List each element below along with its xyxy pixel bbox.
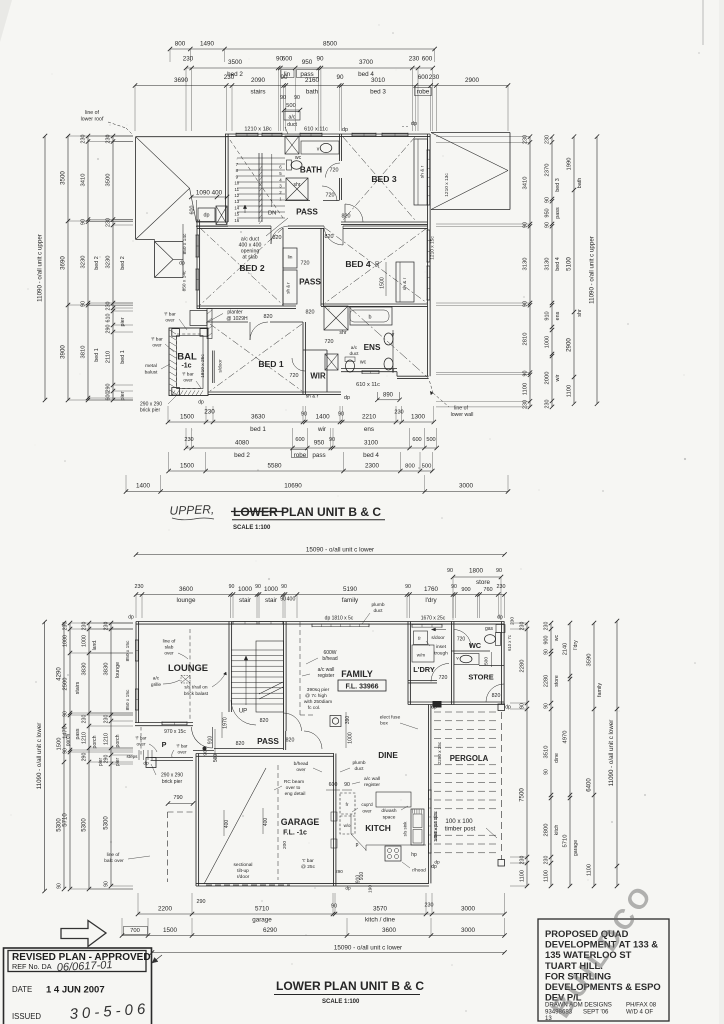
- svg-text:over to: over to: [286, 785, 301, 791]
- svg-text:balc over: balc over: [104, 858, 124, 864]
- svg-text:500: 500: [213, 754, 219, 763]
- svg-text:820: 820: [286, 738, 295, 744]
- svg-text:sh & r: sh & r: [286, 282, 291, 294]
- upper plan - right roof (hip over bed3): [431, 132, 510, 134]
- svg-text:3130: 3130: [523, 258, 529, 271]
- svg-text:3010: 3010: [371, 77, 386, 84]
- lower plan - top dim row 1 (15090 o/all): [136, 554, 505, 556]
- svg-text:5300: 5300: [82, 818, 88, 832]
- svg-text:15: 15: [234, 212, 239, 217]
- svg-text:90: 90: [405, 584, 411, 590]
- svg-text:230: 230: [544, 622, 550, 631]
- upper plan - left roof (hip): [136, 136, 228, 138]
- upper plan - small dp box and duct at west step: [198, 208, 215, 222]
- svg-text:90: 90: [229, 584, 235, 590]
- svg-text:steps: steps: [127, 754, 139, 759]
- svg-text:3000: 3000: [461, 906, 476, 913]
- svg-text:2900: 2900: [465, 77, 480, 84]
- svg-text:store: store: [554, 675, 560, 687]
- svg-text:line of: line of: [107, 852, 120, 858]
- svg-text:600: 600: [422, 56, 433, 63]
- svg-text:2160: 2160: [305, 77, 320, 84]
- svg-text:1000: 1000: [63, 635, 69, 647]
- svg-text:4080: 4080: [235, 440, 250, 447]
- upper plan - bottom dim row A (bed1/wir/ens): [168, 421, 434, 423]
- svg-text:over: over: [164, 651, 174, 657]
- svg-text:90: 90: [523, 222, 529, 228]
- upper plan - right dim col 4 (o/all): [596, 137, 598, 404]
- upper plan - south-east step walls at ens: [341, 368, 397, 370]
- svg-text:over: over: [296, 767, 306, 773]
- svg-text:1210: 1210: [104, 733, 110, 745]
- svg-text:box: box: [380, 721, 388, 727]
- svg-text:3690: 3690: [60, 256, 67, 270]
- svg-text:30-5-06: 30-5-06: [69, 1000, 150, 1023]
- svg-text:230: 230: [81, 135, 87, 144]
- svg-text:16: 16: [234, 218, 239, 223]
- lower plan - garage west wall: [195, 754, 197, 887]
- lower plan - family/ldry wall: [407, 622, 409, 705]
- svg-text:850 x 14c: 850 x 14c: [182, 270, 188, 291]
- svg-text:PERGOLA: PERGOLA: [450, 754, 489, 763]
- svg-text:600: 600: [106, 392, 112, 401]
- upper plan - bed3 robe: [414, 139, 428, 205]
- svg-text:90: 90: [281, 584, 287, 590]
- upper plan - bed2 west wall: [196, 220, 198, 310]
- lower plan - pass walls: [283, 731, 285, 750]
- svg-text:duct: duct: [349, 351, 359, 357]
- svg-text:6290: 6290: [263, 927, 278, 934]
- svg-text:230: 230: [520, 622, 526, 631]
- svg-text:ISSUED: ISSUED: [12, 1012, 41, 1021]
- svg-text:balust: balust: [145, 370, 158, 376]
- svg-text:over: over: [362, 809, 372, 815]
- lower plan - store/family south wall: [408, 701, 505, 703]
- svg-text:cup'd: cup'd: [361, 802, 373, 808]
- svg-text:2370: 2370: [545, 164, 551, 177]
- lower plan - wc vanity: [454, 654, 479, 665]
- svg-text:850 x 15c: 850 x 15c: [125, 640, 131, 661]
- svg-text:15090 - o/all unit c lower: 15090 - o/all unit c lower: [334, 945, 402, 952]
- svg-text:9: 9: [236, 174, 239, 179]
- svg-text:1210 x 13c: 1210 x 13c: [444, 173, 450, 197]
- svg-text:890: 890: [383, 393, 394, 399]
- lower plan - left dim col 2: [69, 623, 71, 889]
- svg-text:wir: wir: [317, 426, 326, 433]
- svg-text:PASS: PASS: [299, 278, 321, 287]
- svg-text:lounge: lounge: [115, 662, 121, 678]
- svg-text:5710: 5710: [255, 906, 270, 913]
- svg-text:line of: line of: [454, 406, 468, 412]
- svg-text:garage: garage: [573, 840, 579, 856]
- upper plan - left dim col 4: [112, 136, 114, 400]
- svg-text:910: 910: [208, 736, 214, 745]
- svg-text:l'dry: l'dry: [425, 597, 437, 604]
- svg-text:land.: land.: [92, 640, 98, 651]
- lower plan - ldry plumb duct (solid): [433, 701, 442, 708]
- svg-text:1 4 JUN 2007: 1 4 JUN 2007: [46, 985, 105, 996]
- svg-text:inset: inset: [436, 644, 447, 650]
- lower plan - north wall windows: [233, 621, 257, 623]
- svg-text:3900: 3900: [60, 345, 67, 359]
- lower plan - porch south wall: [151, 757, 193, 759]
- upper plan - balcony corner piers: [172, 329, 180, 337]
- svg-text:1100: 1100: [520, 870, 526, 882]
- svg-text:dp: dp: [411, 121, 417, 127]
- upper plan - balcony sliding door leaf: [212, 351, 214, 384]
- upper plan - west step wall at stair base: [196, 221, 228, 223]
- lower plan - porch pier + annotation: [146, 758, 156, 768]
- upper plan - north wall: [225, 133, 430, 135]
- svg-text:P: P: [162, 740, 167, 749]
- svg-text:720: 720: [301, 261, 310, 267]
- svg-text:2110: 2110: [106, 351, 112, 363]
- svg-text:shr: shr: [294, 182, 301, 188]
- svg-text:ens: ens: [555, 311, 561, 320]
- svg-text:r/door: r/door: [237, 874, 250, 880]
- lower plan - stair bottom door: [284, 713, 302, 731]
- svg-text:2280 x 25c: 2280 x 25c: [437, 741, 442, 764]
- svg-text:dine: dine: [554, 753, 560, 763]
- svg-text:2000: 2000: [545, 372, 551, 385]
- svg-text:eng detail: eng detail: [285, 791, 306, 797]
- svg-text:820: 820: [325, 234, 334, 240]
- svg-text:90: 90: [294, 95, 300, 101]
- svg-text:LOUNGE: LOUNGE: [168, 662, 208, 673]
- svg-text:stair: stair: [265, 597, 277, 604]
- svg-text:ENS: ENS: [364, 343, 381, 352]
- svg-text:UP: UP: [239, 709, 247, 715]
- upper plan - a/c duct shaft beside stairs: [285, 136, 299, 154]
- svg-text:230: 230: [135, 584, 144, 590]
- svg-text:290: 290: [106, 325, 112, 334]
- svg-text:14: 14: [234, 205, 239, 210]
- svg-text:over: over: [152, 343, 162, 349]
- svg-text:lower wall: lower wall: [451, 412, 474, 418]
- room BAL balcony: [169, 328, 208, 396]
- svg-text:pass: pass: [75, 728, 81, 739]
- svg-text:600: 600: [295, 437, 304, 443]
- svg-text:over: over: [183, 378, 193, 384]
- svg-text:1500: 1500: [380, 277, 386, 289]
- upper plan - ens wc + basins: [346, 360, 355, 372]
- svg-text:KITCH: KITCH: [365, 823, 391, 833]
- svg-text:1100: 1100: [567, 385, 573, 397]
- svg-text:fc col.: fc col.: [308, 705, 321, 711]
- svg-text:90: 90: [544, 649, 550, 655]
- svg-text:brick pier: brick pier: [140, 408, 161, 414]
- svg-text:register: register: [318, 673, 335, 679]
- upper plan - bed3 door through divider: [326, 163, 341, 178]
- svg-text:bed 3: bed 3: [555, 178, 561, 192]
- svg-text:b: b: [369, 315, 372, 321]
- svg-text:5: 5: [279, 171, 282, 176]
- lower plan - kitchen east window: [428, 790, 430, 853]
- svg-text:600: 600: [190, 206, 196, 215]
- svg-text:90: 90: [544, 769, 550, 775]
- svg-text:3630: 3630: [251, 414, 266, 421]
- svg-text:230: 230: [429, 74, 440, 81]
- upper plan - planter at balcony: [190, 311, 207, 326]
- upper plan - ens south window + 890 dim: [362, 370, 379, 372]
- lower plan - lounge west windows: [135, 640, 137, 661]
- svg-text:lounge: lounge: [177, 597, 196, 604]
- svg-text:90: 90: [545, 222, 551, 228]
- svg-text:11090 - o/all unit c lower: 11090 - o/all unit c lower: [36, 723, 43, 790]
- svg-text:sectional: sectional: [234, 862, 253, 868]
- svg-text:2300: 2300: [365, 463, 380, 470]
- svg-text:390sq pier: 390sq pier: [307, 687, 330, 693]
- lower plan - right dim col 3: [569, 623, 571, 886]
- upper plan - bed2 door: [271, 226, 289, 244]
- lower plan - garage door (dashed): [206, 884, 290, 886]
- svg-text:90: 90: [344, 782, 350, 788]
- svg-text:900: 900: [461, 587, 470, 593]
- svg-text:bed 2: bed 2: [120, 256, 126, 270]
- svg-text:3500: 3500: [60, 171, 67, 185]
- svg-text:230: 230: [183, 56, 194, 63]
- svg-text:BED 4: BED 4: [345, 259, 371, 269]
- svg-text:F.L. -1c: F.L. -1c: [283, 830, 307, 837]
- svg-text:400: 400: [224, 820, 230, 829]
- svg-text:230: 230: [63, 622, 69, 631]
- svg-text:500: 500: [286, 103, 296, 109]
- svg-text:dp: dp: [198, 400, 204, 406]
- svg-text:1300: 1300: [411, 414, 426, 421]
- svg-text:600: 600: [329, 782, 338, 788]
- lower plan - porch west dashed edge: [140, 727, 142, 757]
- upper plan - bed1/balcony south wall: [208, 391, 341, 393]
- upper plan - bath shower: [286, 178, 308, 200]
- svg-text:90: 90: [57, 883, 63, 889]
- svg-text:3500: 3500: [228, 59, 243, 66]
- svg-text:duct: duct: [287, 122, 297, 128]
- kitchen lower bench + stove: [366, 844, 426, 846]
- upper plan - small lower hip roof: [154, 242, 156, 278]
- svg-text:230: 230: [545, 400, 551, 409]
- svg-text:pass: pass: [312, 452, 325, 459]
- lower plan - stair/family wall: [283, 622, 285, 732]
- svg-text:230: 230: [497, 584, 506, 590]
- svg-text:820: 820: [492, 693, 501, 699]
- lower plan - wc/store divider + vanity nook: [452, 650, 491, 652]
- upper plan - pass/bed4 divider wall: [320, 228, 322, 306]
- upper plan - left dim col 3: [87, 136, 89, 400]
- svg-text:800: 800: [405, 464, 415, 470]
- svg-text:2810: 2810: [523, 333, 529, 346]
- svg-text:stairs: stairs: [75, 681, 81, 694]
- svg-text:90: 90: [81, 301, 87, 307]
- svg-text:bed 3: bed 3: [370, 89, 386, 96]
- svg-text:950: 950: [302, 59, 313, 66]
- svg-text:12: 12: [234, 193, 239, 198]
- svg-text:F.L. 33966: F.L. 33966: [345, 684, 378, 691]
- svg-text:DINE: DINE: [378, 751, 398, 760]
- svg-text:610 x 11c: 610 x 11c: [356, 382, 380, 388]
- upper plan - bed1 east wall: [302, 322, 304, 394]
- svg-text:720: 720: [326, 193, 335, 199]
- svg-text:230: 230: [104, 622, 110, 631]
- svg-text:BATH: BATH: [300, 166, 322, 175]
- upper plan - bottom dim row B (bed2/robe/pass/bed4): [186, 447, 437, 449]
- svg-text:2210: 2210: [362, 414, 377, 421]
- svg-text:robe: robe: [294, 452, 307, 459]
- svg-text:bed 1: bed 1: [120, 350, 126, 364]
- svg-text:820: 820: [264, 314, 273, 320]
- svg-text:6: 6: [279, 165, 282, 170]
- svg-text:s/door: s/door: [218, 359, 224, 373]
- upper plan - ens bath tub: [350, 307, 392, 325]
- lower plan - pergola posts: [498, 704, 505, 711]
- svg-text:1990: 1990: [567, 158, 573, 171]
- lower plan - line of balc over (dashed): [167, 812, 169, 882]
- svg-text:porch: porch: [92, 735, 98, 748]
- svg-text:230: 230: [425, 903, 434, 909]
- svg-text:500: 500: [422, 464, 432, 470]
- svg-text:'f' bar: 'f' bar: [177, 744, 188, 749]
- svg-text:1970: 1970: [223, 717, 229, 729]
- svg-text:720: 720: [290, 373, 299, 379]
- svg-text:1800: 1800: [469, 568, 484, 575]
- svg-text:8: 8: [236, 168, 239, 173]
- svg-text:kitch / dine: kitch / dine: [365, 917, 396, 924]
- svg-text:1000: 1000: [545, 336, 551, 348]
- svg-text:820: 820: [273, 235, 282, 241]
- svg-text:gas: gas: [485, 626, 494, 632]
- svg-text:1000: 1000: [348, 732, 354, 744]
- approved stamp outer box: [4, 948, 152, 1024]
- svg-text:90: 90: [523, 301, 529, 307]
- svg-text:shr: shr: [339, 330, 346, 336]
- svg-text:90: 90: [255, 584, 261, 590]
- upper plan - bed1 north wall: [208, 321, 248, 323]
- svg-text:PASS: PASS: [296, 208, 318, 217]
- svg-text:SCALE 1:100: SCALE 1:100: [322, 999, 360, 1005]
- svg-text:90: 90: [336, 74, 344, 81]
- svg-text:'f' bar: 'f' bar: [164, 312, 176, 318]
- svg-text:brick balast: brick balast: [184, 691, 209, 697]
- svg-text:wc: wc: [554, 634, 560, 641]
- upper plan - bed3 south wall: [341, 221, 428, 223]
- svg-text:line of: line of: [163, 639, 176, 645]
- svg-text:720: 720: [325, 339, 334, 345]
- svg-text:d/wash: d/wash: [381, 808, 397, 814]
- svg-text:90: 90: [81, 219, 87, 225]
- svg-text:plumb: plumb: [352, 760, 365, 766]
- svg-text:6400: 6400: [587, 778, 593, 792]
- svg-text:sh & r: sh & r: [402, 277, 408, 290]
- upper plan - left dim col 1 (o/all): [44, 136, 46, 400]
- svg-text:3810: 3810: [81, 346, 87, 359]
- svg-text:fr: fr: [418, 636, 421, 641]
- svg-text:400: 400: [263, 818, 269, 827]
- svg-text:3500: 3500: [106, 174, 112, 187]
- svg-text:space: space: [383, 816, 396, 821]
- svg-text:dp: dp: [431, 705, 437, 711]
- svg-text:bed 4: bed 4: [555, 257, 561, 271]
- svg-text:1490: 1490: [200, 41, 215, 48]
- svg-text:fr: fr: [346, 802, 349, 808]
- svg-text:1400: 1400: [136, 483, 151, 490]
- svg-text:'f' bar: 'f' bar: [151, 337, 163, 343]
- lower plan - left dim col 1: [63, 623, 65, 889]
- svg-text:5580: 5580: [267, 463, 282, 470]
- svg-text:l'dry: l'dry: [573, 640, 579, 650]
- svg-text:3590: 3590: [587, 654, 593, 667]
- svg-text:820: 820: [260, 718, 269, 724]
- svg-text:1100: 1100: [544, 870, 550, 882]
- svg-text:230: 230: [394, 410, 403, 416]
- svg-text:bed 2: bed 2: [234, 452, 250, 459]
- svg-text:230: 230: [545, 135, 551, 144]
- svg-text:pass: pass: [555, 207, 561, 219]
- svg-text:brick pier: brick pier: [162, 779, 183, 785]
- svg-text:230: 230: [204, 409, 215, 416]
- approved stamp inner box: [8, 951, 146, 972]
- svg-text:3230: 3230: [81, 256, 87, 269]
- upper plan - stairs with treads and DN arrow: [237, 157, 285, 159]
- lower plan - top dim row 3 (lounge/stair/family/ldry): [136, 594, 505, 596]
- svg-text:UPPER,: UPPER,: [169, 502, 214, 518]
- svg-text:720: 720: [439, 675, 448, 681]
- upper plan - top dimension row 2 (bed2/lin/pass/bed4): [186, 67, 433, 69]
- upper plan - bed4 robe: [396, 262, 414, 302]
- upper plan - planter wall hatch: [207, 309, 212, 339]
- svg-text:11090 - o/all unit c upper: 11090 - o/all unit c upper: [37, 234, 44, 302]
- svg-text:planter: planter: [227, 310, 243, 316]
- svg-text:1210 x 18c: 1210 x 18c: [244, 127, 272, 133]
- upper plan - left dim col 2: [67, 136, 69, 400]
- svg-text:90: 90: [63, 748, 69, 754]
- svg-text:a/c: a/c: [153, 676, 160, 682]
- svg-text:2280: 2280: [544, 675, 550, 687]
- svg-text:2500: 2500: [63, 678, 69, 691]
- svg-text:90: 90: [338, 412, 344, 418]
- upper plan - bed2 south wall: [197, 305, 296, 307]
- svg-text:trough: trough: [434, 651, 448, 657]
- room PERGOLA (dashed louvres): [434, 711, 500, 713]
- svg-text:3000: 3000: [461, 927, 476, 934]
- svg-text:w/o: w/o: [344, 823, 351, 828]
- lower plan - slab over dash lines: [299, 622, 301, 715]
- svg-text:90: 90: [104, 881, 110, 887]
- upper plan - bottom dim row C: [169, 470, 433, 472]
- svg-text:line of: line of: [85, 110, 99, 116]
- svg-text:dp: dp: [345, 886, 351, 892]
- upper plan - bed2 east wall: [282, 228, 284, 306]
- svg-text:sh & r: sh & r: [306, 394, 319, 400]
- svg-text:230: 230: [520, 856, 526, 865]
- svg-text:90: 90: [329, 437, 335, 443]
- upper plan - bed4 door: [324, 226, 343, 245]
- upper plan - bath south wall + door: [285, 200, 310, 202]
- svg-text:950: 950: [545, 208, 551, 217]
- upper plan - wir walls: [303, 349, 327, 351]
- svg-text:1670 x 25c: 1670 x 25c: [421, 616, 446, 622]
- svg-text:90: 90: [447, 568, 453, 574]
- upper plan - corridor south wall (bed2/bed4 north): [197, 225, 271, 227]
- svg-text:family: family: [342, 597, 359, 604]
- lower plan - north wall: [136, 621, 505, 623]
- upper plan - right dim col 3: [573, 137, 575, 404]
- title block box: [538, 919, 669, 1021]
- svg-text:790: 790: [173, 795, 182, 801]
- svg-text:820: 820: [236, 741, 245, 747]
- svg-text:11: 11: [235, 187, 240, 192]
- svg-text:500: 500: [426, 437, 435, 443]
- svg-text:90: 90: [316, 56, 324, 63]
- svg-text:@ 1029H: @ 1029H: [226, 316, 248, 322]
